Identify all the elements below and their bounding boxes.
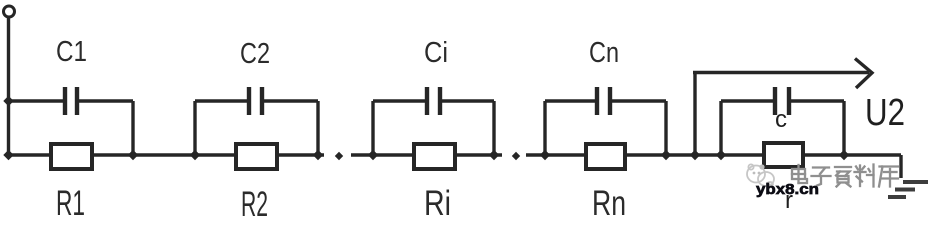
电	[792, 169, 805, 179]
input terminal (open circle)	[4, 6, 15, 17]
arrowhead U2 output	[855, 59, 872, 89]
库	[880, 165, 899, 167]
capacitor C1 branch wire left	[8, 99, 63, 102]
capacitor Ci branch wire left	[373, 99, 425, 102]
capacitor Cn branch wire left	[545, 99, 595, 102]
label R2	[241, 185, 268, 224]
watermark text 电子资料库 (simulated glyph blocks)	[792, 165, 899, 187]
wire main segment R1 to R2	[92, 153, 236, 156]
node F (section3 left)	[368, 150, 378, 160]
svg-text:C2: C2	[240, 38, 270, 70]
node I (section4 right)	[661, 150, 671, 160]
wire main segment r to ground	[803, 153, 901, 156]
wire rail right of section 4	[664, 101, 667, 155]
子	[813, 166, 829, 168]
ellipsis dot 1	[335, 152, 343, 160]
svg-text:ybx8.cn: ybx8.cn	[756, 181, 819, 198]
node B (left rail / main line junction)	[3, 150, 13, 160]
capacitor Cn branch wire right	[612, 99, 666, 102]
capacitor Cn plates	[597, 87, 610, 115]
capacitor C1 plates	[65, 87, 77, 115]
label r	[785, 187, 793, 214]
node E (section2 right)	[313, 150, 323, 160]
svg-text:U2: U2	[865, 92, 905, 134]
wire left rail x=8	[7, 17, 10, 155]
wire rail right of section 3	[492, 101, 495, 155]
capacitor Ci branch wire right	[442, 99, 494, 102]
label c	[775, 106, 787, 133]
capacitor C2 branch wire left	[195, 99, 247, 102]
label C1	[56, 36, 87, 68]
资	[835, 166, 851, 168]
capacitor c branch wire left	[721, 99, 773, 102]
node J (output tap)	[690, 150, 700, 160]
wire rail left of section 3	[371, 101, 374, 155]
ground	[888, 155, 928, 197]
wire rail right of final section	[842, 101, 845, 155]
node D (section2 left)	[190, 150, 200, 160]
resistor Ri	[414, 144, 455, 169]
svg-text:R2: R2	[241, 185, 268, 220]
label U2	[865, 92, 905, 134]
wire main segment Rn to r	[625, 153, 764, 156]
capacitor C2 plates	[249, 87, 262, 115]
wire rail left of section 2	[193, 101, 196, 155]
node C (section1 right)	[128, 150, 138, 160]
label Cn	[589, 37, 619, 69]
svg-text:Cn: Cn	[589, 37, 619, 69]
capacitor c branch wire right	[791, 99, 844, 102]
resistor Rn	[586, 144, 625, 169]
node L (final section right)	[839, 150, 849, 160]
svg-text:C1: C1	[56, 36, 87, 68]
watermark text ybx8.cn	[756, 181, 819, 198]
node G (section3 right)	[489, 150, 499, 160]
capacitor Ci plates	[427, 87, 440, 115]
label R1	[56, 184, 85, 223]
capacitor C1 branch wire right	[79, 99, 133, 102]
watermark panda logo	[747, 164, 774, 186]
capacitor c plates	[775, 87, 789, 115]
svg-text:Ri: Ri	[424, 184, 451, 220]
label C2	[240, 38, 270, 70]
wire main segment to Rn	[526, 153, 586, 156]
wire output riser	[693, 73, 696, 156]
label Ci	[424, 37, 448, 69]
node A (left rail / cap branch junction)	[3, 96, 13, 106]
resistor R1	[51, 144, 92, 169]
svg-text:c: c	[775, 106, 787, 133]
wire main segment after Ri	[455, 153, 502, 156]
resistor R2	[236, 144, 277, 169]
wire main segment after R2	[277, 153, 324, 156]
ellipsis dot 2	[512, 152, 520, 160]
svg-text:Rn: Rn	[592, 184, 626, 220]
wire main segment to R1	[8, 153, 51, 156]
wire main segment to Ri	[351, 153, 414, 156]
node K (final section left)	[716, 150, 726, 160]
node H (section4 left)	[540, 150, 550, 160]
料	[859, 166, 861, 187]
label Rn	[592, 184, 626, 223]
svg-text:Ci: Ci	[424, 37, 448, 69]
wire rail right of section 2	[316, 101, 319, 155]
wire rail right of section 1	[131, 101, 134, 155]
wire output top line	[693, 71, 869, 74]
resistor r	[764, 143, 803, 167]
wire rail left of section 4	[543, 101, 546, 155]
svg-text:R1: R1	[56, 184, 85, 220]
capacitor C2 branch wire right	[264, 99, 318, 102]
wire rail left of final section	[719, 101, 722, 155]
label Ri	[424, 184, 451, 223]
